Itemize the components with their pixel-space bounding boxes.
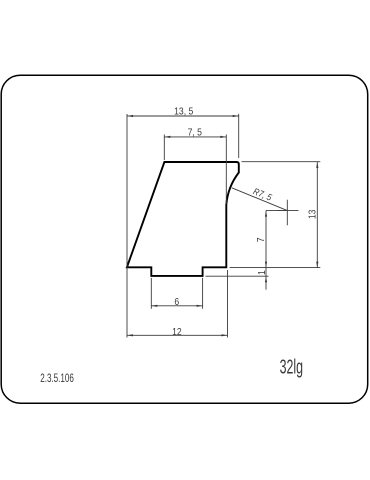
extension line 12 right [227, 270, 229, 338]
dimension line 7 / 1 [265, 211, 267, 290]
drawing sheet frame [1, 75, 368, 403]
arrow top 13 [316, 162, 318, 168]
svg-text:7, 5: 7, 5 [188, 127, 202, 138]
dimension line 13,5 [127, 115, 239, 117]
part outline [127, 162, 239, 276]
arrow top 7 [265, 211, 267, 217]
extension line left 7,5 [163, 135, 165, 161]
connector 7 to cross [266, 210, 287, 212]
arrow bottom 13 [316, 262, 318, 268]
dimension line 7,5 [164, 136, 226, 138]
svg-text:13, 5: 13, 5 [174, 106, 193, 117]
radius center cross [277, 210, 299, 212]
svg-text:1: 1 [256, 270, 267, 275]
svg-text:32lg: 32lg [280, 356, 303, 379]
svg-text:6: 6 [174, 296, 179, 307]
arrow left 7,5 [164, 136, 170, 138]
svg-text:13: 13 [307, 210, 318, 220]
arrow left 6 [151, 305, 157, 307]
arrow right 6 [197, 305, 203, 307]
dimension line 13 [316, 162, 318, 268]
extension line 6 left [150, 278, 152, 309]
svg-text:7: 7 [255, 237, 266, 242]
leader R7,5 [232, 188, 287, 211]
extension line top 13 [242, 161, 321, 163]
svg-text:2.3.5.106: 2.3.5.106 [40, 373, 74, 386]
arrow left 13,5 [127, 115, 133, 117]
extension line right 13,5 [238, 114, 240, 158]
extension line bottom (13 / 7) [230, 267, 321, 269]
extension line left (13,5 / 12) [126, 114, 128, 338]
extension line tab bottom [206, 275, 269, 277]
arrow left 12 [127, 334, 133, 336]
arrow right 13,5 [233, 115, 239, 117]
extension line 6 right [202, 278, 204, 309]
arrow right 7,5 [220, 136, 226, 138]
dimension line 12 [127, 334, 228, 336]
dimension line 6 [151, 305, 202, 307]
arrow up below tab line (1) [265, 276, 267, 282]
arrow down at bottom edge [265, 262, 267, 268]
arrow right 12 [222, 334, 228, 336]
svg-text:12: 12 [172, 326, 182, 337]
extension line right 7,5 [225, 135, 227, 205]
